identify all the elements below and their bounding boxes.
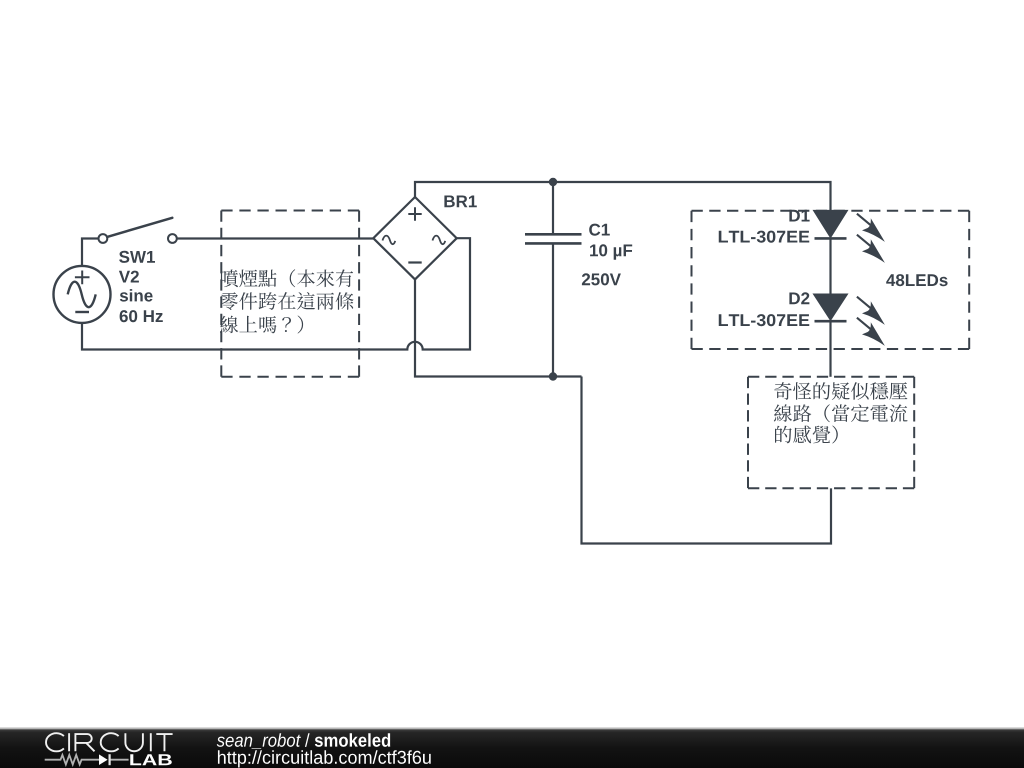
annotation box 1 dashed (221, 211, 359, 377)
footer title sean_robot / smokeled (217, 733, 391, 749)
BR1 plus mark (408, 207, 421, 220)
D1 light arrow 2 (857, 235, 885, 263)
node dot top (549, 178, 557, 186)
note box2 text line 2 (774, 404, 908, 422)
label BR1 (444, 196, 476, 208)
BR1 right ac mark (433, 236, 446, 245)
LED group dashed box 48LEDs (692, 211, 970, 349)
capacitor C1 top wire (552, 182, 554, 234)
wire BR1 bottom to rail and bottom rail (415, 279, 582, 376)
wire bottom loop (582, 377, 832, 544)
BR1 left ac mark (383, 236, 396, 245)
note box2 text line 3 (775, 426, 838, 444)
CircuitLab logo resistor wire (45, 755, 129, 765)
bridge rectifier BR1 diamond (373, 197, 456, 279)
wire BR1 top, top rail, down to D1 (415, 182, 831, 211)
wire V2 top to switch (82, 239, 98, 266)
label D1 (789, 210, 809, 222)
label sine (120, 289, 153, 302)
label D2 (789, 292, 809, 304)
note box1 text line 3 (220, 316, 303, 334)
C1 bottom plate (525, 242, 582, 245)
LED D2 triangle (815, 295, 847, 320)
D1 cathode bar (815, 237, 847, 240)
CircuitLab logo diode (99, 754, 108, 765)
BR1 minus mark (408, 261, 421, 263)
D2 cathode bar (815, 320, 847, 323)
V2 sine wave (68, 282, 96, 308)
footer bar (0, 727, 1024, 768)
label 10 uF (590, 244, 632, 259)
label C1 (589, 224, 610, 236)
label V2 (119, 271, 139, 283)
wire D2 down (829, 321, 831, 377)
label D2 part LTL-307EE (719, 314, 809, 326)
switch SW1 lever (108, 218, 173, 237)
note box1 text line 1 (221, 269, 353, 287)
label SW1 (119, 251, 155, 263)
D1 light arrow 1 (857, 214, 885, 242)
wire D1 to D2 (829, 238, 831, 294)
D2 light arrow 2 (857, 318, 885, 346)
V2 plus mark (75, 271, 90, 285)
CircuitLab logo diode bar (108, 754, 110, 765)
footer url (218, 750, 431, 767)
CircuitLab logo LAB (130, 754, 171, 765)
D2 light arrow 1 (857, 297, 885, 325)
V2 minus mark (75, 311, 89, 313)
note box2 text line 1 (774, 382, 907, 400)
annotation box 2 dashed white-filled (748, 377, 914, 488)
label D1 part LTL-307EE (719, 231, 809, 243)
label 48LEDs (886, 274, 947, 286)
CircuitLab logo CIRCUIT (drawn thin letters) (46, 733, 173, 751)
switch SW1 left terminal (99, 234, 108, 243)
voltage source V2 (54, 266, 111, 323)
LED D1 triangle (815, 211, 847, 237)
wire switch to bridge (177, 237, 373, 239)
note box1 text line 2 (220, 292, 353, 310)
wire V2 bottom + AC rail with hop (82, 238, 470, 349)
switch SW1 right terminal (168, 234, 177, 243)
label 60 Hz (120, 310, 163, 322)
C1 top plate (525, 233, 582, 236)
label 250V (582, 273, 621, 285)
node dot bottom (549, 372, 557, 380)
C1 bottom wire (552, 243, 554, 376)
